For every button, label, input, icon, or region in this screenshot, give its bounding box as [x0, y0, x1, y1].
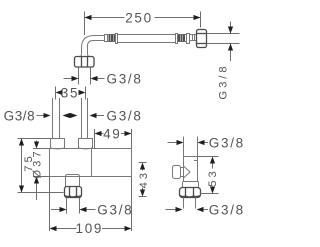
dim G3/8 right arrows	[228, 27, 233, 34]
pipe 2	[81, 98, 83, 139]
boss 1	[51, 139, 65, 149]
outlet stub	[66, 175, 80, 187]
dim 109 line + arrows	[50, 226, 57, 231]
hose nut left	[75, 57, 95, 68]
svg-text:G3/8: G3/8	[107, 108, 143, 123]
hose left tube flare	[80, 53, 82, 57]
hose crimp ribs right	[178, 35, 187, 42]
dim 250 arrow left	[85, 15, 92, 20]
dim G3/8 bottom arrows	[166, 209, 176, 211]
svg-text:43: 43	[138, 170, 150, 188]
hose ferrule right	[176, 34, 178, 44]
hose nut right	[197, 30, 207, 48]
hose ferrule left	[116, 34, 118, 44]
outlet nut	[65, 187, 82, 198]
svg-text:75: 75	[23, 153, 35, 171]
hose elbow tube	[82, 36, 105, 54]
svg-text:G3/8: G3/8	[217, 63, 229, 99]
dim 250 line	[85, 17, 125, 19]
svg-text:G3/8: G3/8	[209, 202, 245, 217]
boss 2	[79, 139, 93, 149]
dim 250 arrow right	[194, 15, 201, 20]
hex nut	[180, 188, 201, 198]
dim G3/8 right extension lines	[207, 33, 240, 35]
dim G3/8 left arrows	[64, 78, 72, 80]
dim 35 arrows	[56, 90, 63, 95]
svg-text:G3/8: G3/8	[209, 135, 245, 150]
pipe 1	[52, 98, 54, 139]
dim O37 extension lines	[33, 148, 50, 150]
dim G3/8 outlet extension lines	[66, 198, 68, 214]
inlet pipe	[183, 137, 185, 157]
svg-text:109: 109	[75, 221, 103, 236]
svg-text:G3/8: G3/8	[4, 108, 36, 123]
dim O37 line + arrows	[36, 141, 38, 142]
hose crimp ribs left	[108, 35, 116, 42]
svg-text:53: 53	[207, 168, 219, 186]
handle	[173, 166, 181, 179]
handle neck	[181, 167, 184, 169]
dim arrows between pipes	[63, 113, 71, 118]
dim 109 extension lines	[49, 177, 51, 232]
dim 250 extension line left	[84, 12, 86, 36]
dim G3/8 outlet arrows	[51, 209, 60, 211]
dim G3/8 pipes label right	[90, 113, 97, 118]
hose tube	[118, 34, 176, 36]
dim 43 line + arrows	[142, 170, 144, 171]
valve cone triangle	[184, 166, 191, 178]
dim 43 extension lines	[139, 162, 147, 164]
dim G3/8 top arrows	[168, 142, 177, 144]
svg-text:250: 250	[125, 11, 153, 26]
hose thread neck	[190, 35, 197, 41]
valve body	[50, 149, 132, 177]
cartridge block	[184, 157, 198, 182]
collar	[183, 182, 199, 188]
outlet pipe	[183, 198, 185, 209]
dim 35 extension lines	[55, 87, 57, 100]
svg-text:35: 35	[61, 86, 79, 101]
dim G3/8 right line	[230, 22, 232, 34]
hose crimp collar left	[105, 35, 108, 42]
hose collar right	[187, 34, 190, 44]
dim 53 extension lines	[198, 156, 219, 158]
svg-text:49: 49	[103, 127, 121, 142]
dim 49 arrows	[95, 131, 102, 136]
svg-text:G3/8: G3/8	[107, 71, 143, 86]
svg-text:G3/8: G3/8	[97, 203, 133, 218]
dim 250 extension line right	[200, 12, 202, 28]
dim 53 line + arrows	[212, 164, 214, 169]
dim 75 line + arrows	[21, 139, 23, 193]
dim G3/8 left extension lines	[78, 68, 80, 85]
body divider	[91, 149, 93, 177]
dim 75 extension lines	[18, 138, 51, 140]
dim 49 extension line	[94, 129, 96, 149]
